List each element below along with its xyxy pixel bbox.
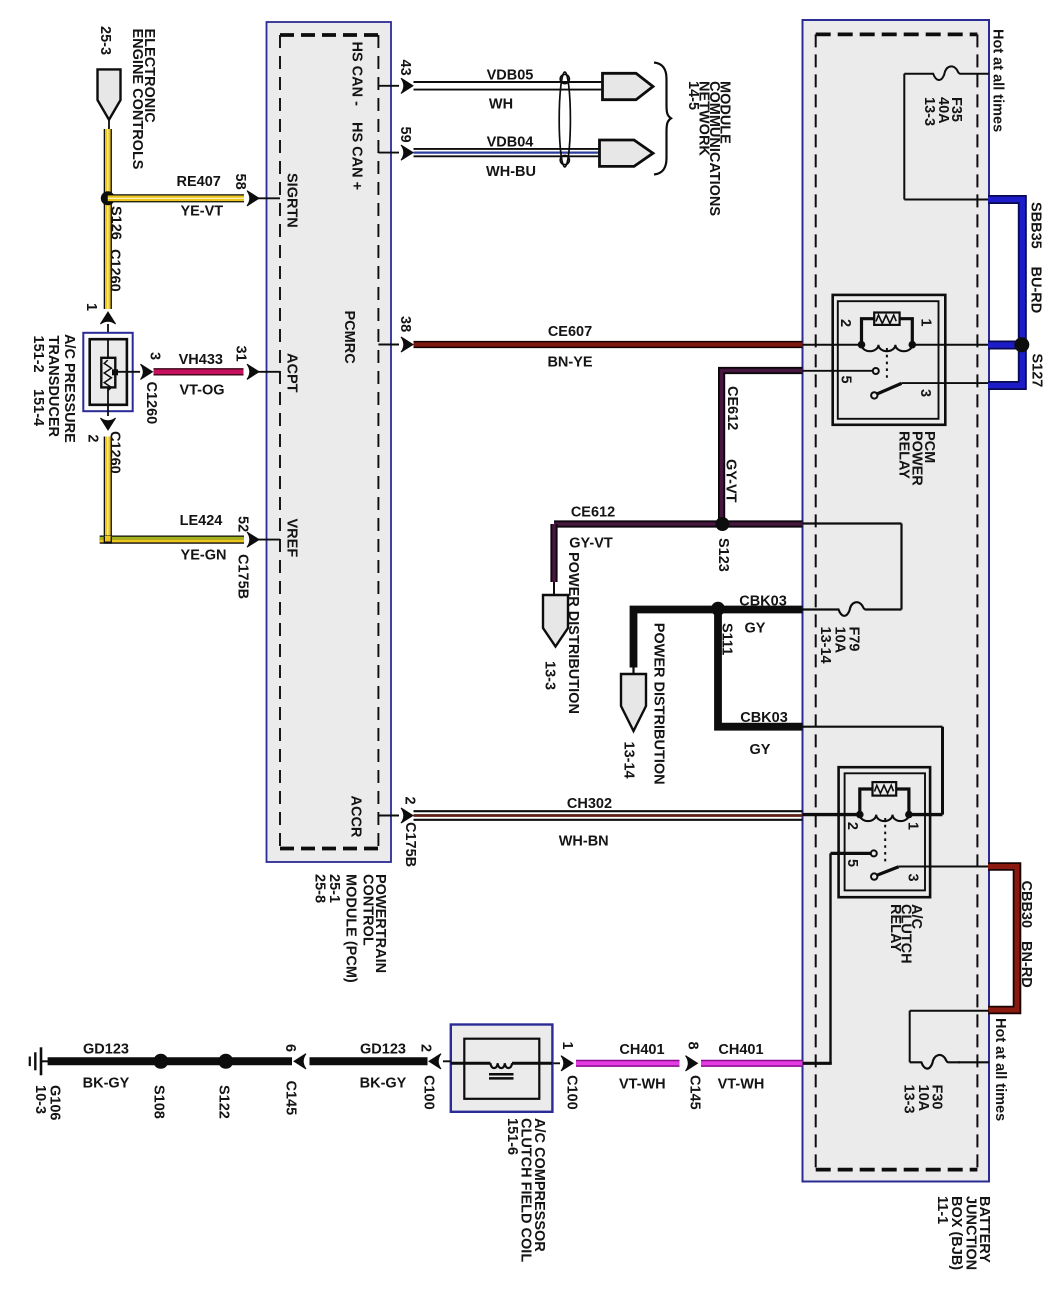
wire CBB30 BN-RD [988,867,1017,1011]
pin 1 arrow C100 [561,1056,573,1071]
ground G106 [42,1060,48,1062]
svg-text:ACPT: ACPT [284,353,300,393]
PCM power relay box [833,295,946,425]
svg-text:13-3: 13-3 [542,661,558,690]
splice S127 [1014,337,1029,352]
svg-text:VH433: VH433 [179,352,223,368]
svg-text:1: 1 [918,319,934,327]
svg-text:WH-BN: WH-BN [559,834,609,850]
svg-text:BK-GY: BK-GY [360,1076,407,1092]
wire to power distribution 13-3 [550,524,557,582]
field coil internal wire [451,1062,491,1065]
wire CBK03 branch to power distribution 13-14 [634,610,719,668]
clutch coil junction dots pins 2 and 1 [856,811,864,819]
brace for module communications network [654,63,671,175]
svg-text:PCMRC: PCMRC [341,311,357,365]
svg-text:3: 3 [147,352,163,360]
svg-text:MODULE (PCM): MODULE (PCM) [343,874,359,983]
svg-text:LE424: LE424 [180,513,223,529]
svg-text:CE612: CE612 [571,505,615,521]
wire RE407 vertical yellow segment [104,129,112,309]
svg-text:25-8: 25-8 [312,874,328,903]
svg-text:2: 2 [837,319,853,327]
svg-text:58: 58 [232,174,248,190]
svg-text:Hot at all times: Hot at all times [992,1018,1008,1121]
A/C clutch relay box [839,767,931,897]
clutch relay coil scallops [860,815,909,822]
wire CBK03 GY to A/C clutch relay [718,610,803,727]
svg-text:CONTROL: CONTROL [360,874,376,946]
svg-text:RE407: RE407 [177,174,221,190]
pin 3 arrow [141,364,153,379]
twisted pair loop symbol [559,72,570,167]
svg-text:HS CAN +: HS CAN + [349,122,365,190]
wire CH401 VT-WH left segment [576,1060,680,1067]
network plug pentagon upper [603,73,654,99]
svg-text:8: 8 [685,1042,701,1050]
A/C pressure transducer box [83,333,132,411]
pin 8 arrow C145 [686,1056,698,1071]
svg-text:POWER DISTRIBUTION: POWER DISTRIBUTION [651,623,667,785]
svg-text:VT-WH: VT-WH [619,1077,666,1093]
svg-text:6: 6 [282,1044,298,1052]
wire CE612 GY-VT vertical from relay pin 5 [722,371,803,525]
svg-text:SIGRTN: SIGRTN [284,173,300,228]
Battery Junction Box [803,20,990,1182]
svg-text:BN-RD: BN-RD [1018,941,1034,988]
pin 38 stub and arrow [378,344,399,346]
svg-text:59: 59 [397,127,413,143]
svg-text:S122: S122 [216,1085,232,1119]
svg-text:GY-VT: GY-VT [723,459,739,503]
svg-text:5: 5 [838,376,854,384]
clutch relay armature dotted link [884,818,886,865]
PCM module box (Powertrain Control Module) [267,22,392,862]
svg-text:C175B: C175B [235,554,251,599]
fuse F35 outline [904,66,989,80]
pin 2 stub and arrow ACCR [378,815,399,817]
svg-text:C100: C100 [421,1075,437,1110]
splice S126 [101,191,115,205]
svg-text:WH: WH [489,97,513,113]
transducer variable resistor element [101,358,115,388]
svg-text:3: 3 [917,389,933,397]
field coil core bars [489,1073,514,1076]
svg-text:GY-VT: GY-VT [569,536,613,552]
svg-text:ACCR: ACCR [348,796,364,838]
svg-text:A/C PRESSURE: A/C PRESSURE [61,334,77,443]
svg-text:13-14: 13-14 [621,742,637,779]
power distribution pentagon 13-14 [621,674,646,731]
svg-text:13-3: 13-3 [901,1085,917,1114]
wire CE612 GY-VT horizontal branch [554,520,803,527]
svg-text:YE-GN: YE-GN [181,548,227,564]
relay coil rail from CE607 [803,344,863,346]
svg-text:CH302: CH302 [567,796,612,812]
CH401 connection inside BJB to clutch relay pin 5 [803,1062,832,1065]
svg-text:25-3: 25-3 [97,26,113,55]
svg-text:BK-GY: BK-GY [83,1076,130,1092]
splice S123 [715,517,729,531]
coil junction dots pins 2 and 1 [858,341,866,349]
svg-text:Hot at all times: Hot at all times [990,29,1006,132]
svg-text:VDB04: VDB04 [487,135,534,151]
wire SBB35 BU-RD [988,200,1022,386]
svg-text:C175B: C175B [402,822,418,867]
svg-text:2: 2 [85,434,101,442]
electronic engine controls connector pentagon [98,69,121,119]
network plug pentagon lower [600,140,654,166]
svg-text:S127: S127 [1029,354,1045,388]
svg-text:52: 52 [235,516,251,532]
svg-text:C145: C145 [687,1075,703,1110]
svg-text:GY: GY [745,621,766,637]
svg-text:CE612: CE612 [724,386,740,430]
wire GD123 BK-GY right segment [310,1057,428,1065]
wire LE424 vertical yellow-green segment [104,437,112,538]
svg-text:VREF: VREF [284,519,300,558]
svg-text:VT-WH: VT-WH [718,1077,765,1093]
clutch relay pin 5 line and contact [831,852,871,855]
svg-text:CE607: CE607 [548,324,592,340]
pin 2 arrow C100 ground side [429,1054,441,1069]
svg-text:11-1: 11-1 [934,1196,950,1224]
BJB inner dashed outline [816,33,978,37]
svg-text:14-5: 14-5 [685,81,701,110]
pin 58 arrow into PCM [247,191,259,206]
A/C compressor clutch field coil box [451,1025,553,1112]
svg-text:38: 38 [397,316,413,332]
PCM inner dashed outline [280,33,378,37]
svg-text:GD123: GD123 [360,1042,406,1058]
svg-text:BN-YE: BN-YE [547,355,592,371]
svg-text:GY: GY [750,742,771,758]
wire VDB05 WH twisted pair upper [414,81,604,83]
clutch relay suppression resistor [873,782,897,796]
clutch relay switch arm to pin 3 [871,873,877,879]
svg-text:2: 2 [418,1044,434,1052]
power distribution pentagon 13-3 [543,595,568,647]
svg-text:CBB30: CBB30 [1018,881,1034,929]
svg-text:CBK03: CBK03 [739,594,787,610]
svg-text:S123: S123 [715,538,731,572]
pin 6 arrow C145 ground side [294,1054,306,1069]
svg-text:SBB35: SBB35 [1028,202,1044,249]
F30 fuse circuit [910,1010,989,1012]
wire RE407 YE-VT horizontal to PCM SIGRTN [108,194,244,202]
svg-text:151-4: 151-4 [30,389,46,426]
svg-text:CBK03: CBK03 [740,710,788,726]
svg-text:RELAY: RELAY [887,904,903,952]
field coil scallops [491,1063,512,1068]
svg-text:S108: S108 [151,1085,167,1119]
pin 5 line and contact [803,370,873,372]
wire CH401 VT-WH right segment [701,1060,803,1067]
clutch resistor leads [860,789,873,813]
svg-text:C1260: C1260 [143,382,159,425]
transducer internal wire [107,339,109,405]
svg-text:3: 3 [905,874,921,882]
svg-text:2: 2 [402,797,418,805]
svg-text:5: 5 [844,859,860,867]
pin 31 arrow into PCM [247,364,259,379]
svg-text:POWER DISTRIBUTION: POWER DISTRIBUTION [565,552,581,714]
svg-text:C100: C100 [564,1075,580,1110]
svg-text:CH401: CH401 [718,1042,763,1058]
svg-text:YE-VT: YE-VT [180,204,223,220]
splice S122 [218,1054,233,1069]
svg-text:VT-OG: VT-OG [179,383,224,399]
resistor leads [862,319,875,343]
svg-text:GD123: GD123 [83,1042,129,1058]
svg-text:HS CAN -: HS CAN - [349,42,365,107]
splice S108 [153,1054,168,1069]
relay suppression resistor [874,313,899,325]
svg-text:13-3: 13-3 [921,97,937,126]
svg-text:13-14: 13-14 [817,627,833,664]
svg-text:1: 1 [559,1042,575,1050]
svg-text:TRANSDUCER: TRANSDUCER [45,336,61,438]
pin 52 arrow into PCM [247,532,259,547]
svg-text:C1260: C1260 [107,249,123,292]
relay switch arm to pin 3 [871,392,877,398]
relay coil scallops [862,345,913,352]
clutch relay coil rail [803,813,861,816]
svg-text:S126: S126 [108,206,124,240]
svg-text:RELAY: RELAY [896,431,912,479]
wire VH433 VT-OG to PCM ACPT [154,368,244,375]
svg-text:10-3: 10-3 [32,1085,48,1114]
svg-text:31: 31 [233,346,249,362]
wire GD123 BK-GY left segment [48,1057,292,1065]
pin 3 wire stub [116,371,140,373]
wire CBK03 GY from F79 to S111 [718,606,803,614]
wire VDB04 WH-BU twisted pair lower [414,148,601,150]
relay armature dotted link [886,348,888,381]
F79 fuse circuit lines [803,522,902,524]
wire CH302 WH-BN [414,810,803,812]
svg-text:ENGINE CONTROLS: ENGINE CONTROLS [129,29,145,170]
svg-text:1: 1 [905,822,921,830]
svg-text:2: 2 [844,822,860,830]
svg-text:151-2: 151-2 [30,336,46,373]
svg-text:BU-RD: BU-RD [1028,267,1044,314]
svg-text:VDB05: VDB05 [487,68,534,84]
pin 2 arrow out of transducer [107,405,109,416]
svg-text:C145: C145 [283,1081,299,1116]
svg-text:CH401: CH401 [619,1042,664,1058]
splice S111 [711,602,725,616]
CBK03 continuation inside BJB [803,726,943,728]
svg-text:43: 43 [397,60,413,76]
wire CE607 BN-YE [414,341,803,348]
svg-text:WH-BU: WH-BU [486,164,536,180]
svg-text:1: 1 [83,303,99,311]
wire from pentagon to yellow wire [108,120,110,130]
svg-text:151-6: 151-6 [504,1118,520,1155]
